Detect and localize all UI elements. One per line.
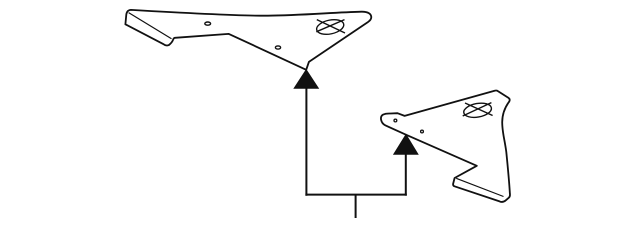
part 1 outline (left cowl side trim) [125, 10, 371, 70]
part 2 hole (left) [394, 119, 397, 122]
part 2 outline (right cowl side trim) [381, 91, 510, 202]
part 1 hole (upper) [205, 22, 211, 25]
callout arrow 1 (to part 1) [294, 70, 318, 88]
callout arrow 2 (to part 2) [394, 135, 418, 155]
leader line left vertical [305, 88, 307, 196]
part 2 hole (right) [421, 130, 424, 133]
part 2 fastener mark (crossed ellipse) [463, 101, 493, 119]
part 1 flange fold line [129, 13, 172, 39]
label stub line [355, 195, 357, 218]
part 1 fastener mark (crossed ellipse) [315, 17, 345, 36]
leader line horizontal [305, 194, 406, 196]
part 1 hole (lower) [275, 46, 280, 49]
leader line right vertical [405, 154, 407, 196]
part 2 flange fold line [456, 178, 503, 196]
